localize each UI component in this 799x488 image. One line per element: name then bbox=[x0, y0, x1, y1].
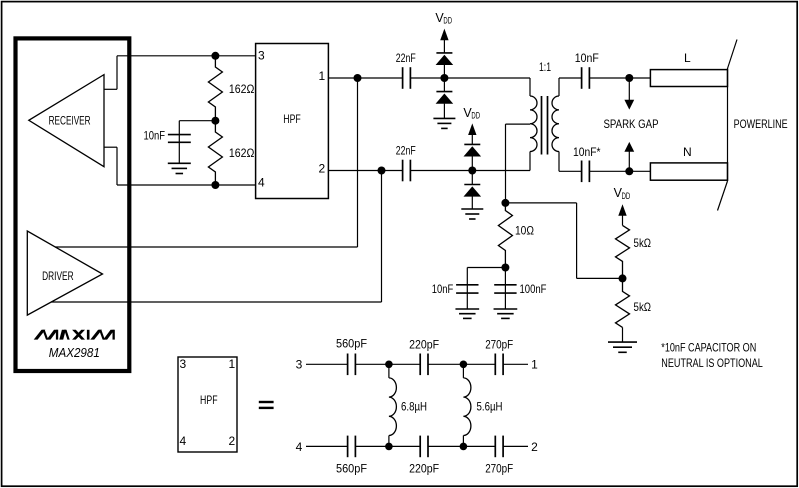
svg-text:4: 4 bbox=[179, 434, 186, 448]
svg-text:1: 1 bbox=[228, 357, 235, 371]
svg-text:4: 4 bbox=[258, 175, 265, 189]
svg-text:3: 3 bbox=[296, 358, 303, 372]
svg-text:MAX2981: MAX2981 bbox=[49, 346, 100, 360]
svg-text:4: 4 bbox=[296, 440, 303, 454]
svg-text:DD: DD bbox=[471, 111, 480, 121]
svg-text:*10nF CAPACITOR ON: *10nF CAPACITOR ON bbox=[661, 341, 756, 355]
svg-text:6.8µH: 6.8µH bbox=[401, 400, 427, 414]
svg-text:2: 2 bbox=[318, 161, 325, 175]
svg-text:560pF: 560pF bbox=[336, 336, 367, 350]
svg-text:HPF: HPF bbox=[200, 393, 218, 407]
svg-text:220pF: 220pF bbox=[409, 461, 439, 475]
svg-text:2: 2 bbox=[531, 440, 538, 454]
svg-text:HPF: HPF bbox=[283, 112, 301, 126]
svg-text:1:1: 1:1 bbox=[539, 60, 551, 74]
svg-text:10nF*: 10nF* bbox=[573, 145, 601, 159]
svg-text:POWERLINE: POWERLINE bbox=[734, 117, 788, 131]
svg-text:100nF: 100nF bbox=[520, 282, 547, 296]
svg-text:10Ω: 10Ω bbox=[515, 223, 534, 237]
svg-text:2: 2 bbox=[228, 434, 235, 448]
svg-text:10nF: 10nF bbox=[144, 128, 166, 142]
svg-text:560pF: 560pF bbox=[336, 461, 367, 475]
svg-text:270pF: 270pF bbox=[485, 338, 513, 352]
svg-text:10nF: 10nF bbox=[575, 51, 599, 65]
svg-text:DD: DD bbox=[622, 191, 631, 201]
svg-text:SPARK GAP: SPARK GAP bbox=[604, 117, 659, 131]
svg-text:DD: DD bbox=[443, 16, 452, 26]
svg-text:3: 3 bbox=[258, 48, 265, 62]
svg-text:N: N bbox=[683, 145, 692, 159]
svg-text:DRIVER: DRIVER bbox=[42, 269, 74, 283]
svg-text:5.6µH: 5.6µH bbox=[477, 400, 503, 414]
svg-text:162Ω: 162Ω bbox=[229, 146, 255, 160]
svg-text:L: L bbox=[684, 51, 691, 65]
svg-text:162Ω: 162Ω bbox=[229, 82, 255, 96]
svg-text:270pF: 270pF bbox=[485, 461, 513, 475]
svg-text:5kΩ: 5kΩ bbox=[634, 300, 652, 314]
svg-text:220pF: 220pF bbox=[409, 338, 439, 352]
svg-text:10nF: 10nF bbox=[432, 282, 454, 296]
svg-text:NEUTRAL IS OPTIONAL: NEUTRAL IS OPTIONAL bbox=[661, 356, 763, 370]
svg-text:1: 1 bbox=[318, 69, 325, 83]
svg-text:3: 3 bbox=[179, 357, 186, 371]
svg-text:5kΩ: 5kΩ bbox=[634, 236, 652, 250]
svg-text:22nF: 22nF bbox=[396, 143, 416, 157]
svg-text:22nF: 22nF bbox=[396, 51, 416, 65]
svg-text:1: 1 bbox=[531, 358, 538, 372]
svg-text:RECEIVER: RECEIVER bbox=[49, 114, 91, 128]
